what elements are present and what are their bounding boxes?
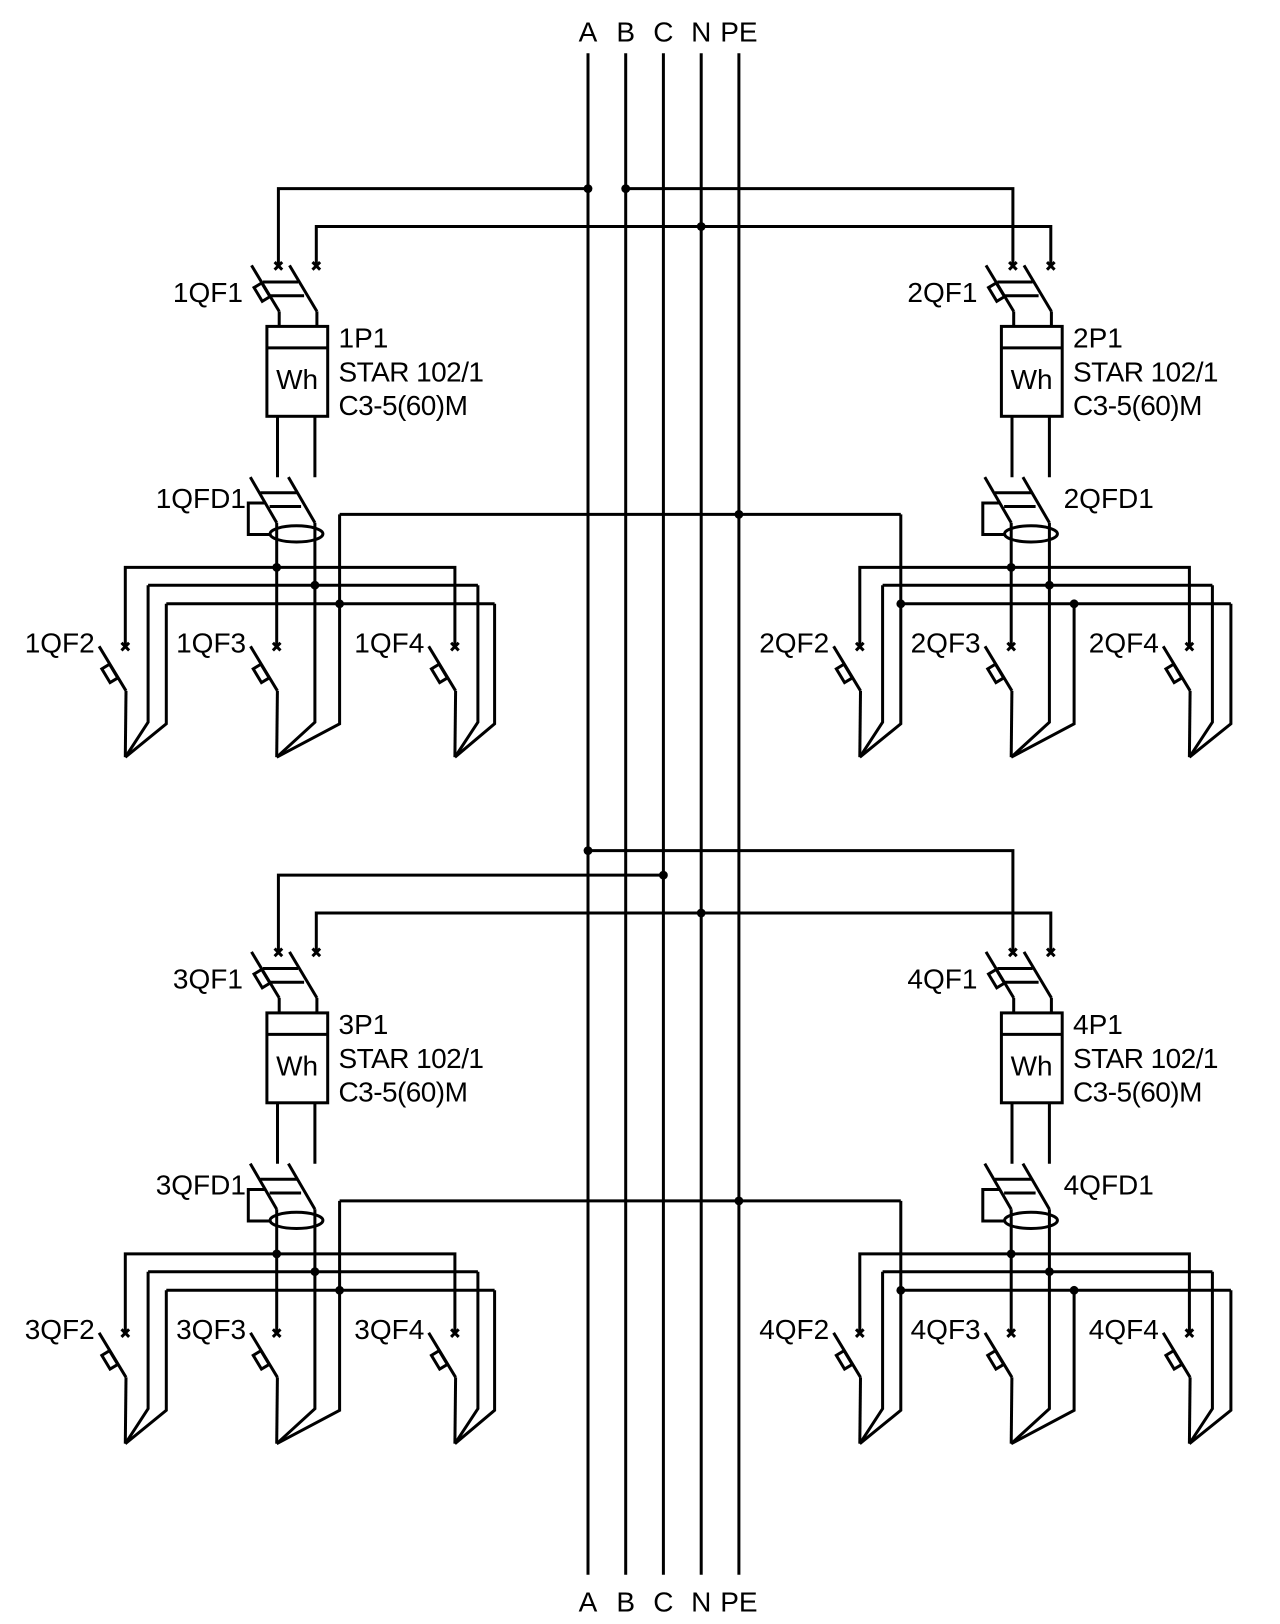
svg-text:2P1: 2P1 (1073, 322, 1123, 353)
circuit breaker 2QF4 (1163, 643, 1193, 691)
N bus to 1QF2 and 1QF4 (125, 585, 478, 757)
svg-text:N: N (691, 1586, 711, 1617)
circuit breaker 1QF1 (2-pole) (252, 262, 321, 311)
junction node on bus N (upper) (697, 222, 706, 231)
svg-text:N: N (691, 17, 711, 48)
wire 2QF2 outgoing feeder (858, 691, 862, 757)
svg-text:2QF3: 2QF3 (911, 627, 981, 658)
N bus to 2QF2 and 2QF4 (860, 585, 1213, 757)
RCD 2QFD1 (residual current device) (983, 477, 1058, 542)
wire 4QFD1 left pole to 4QF3 (1010, 1209, 1013, 1333)
wire meter 2P1 to RCD 2QFD1 (1012, 416, 1049, 477)
svg-text:3QFD1: 3QFD1 (156, 1170, 246, 1201)
wire 2QF4 outgoing feeder (1188, 691, 1192, 757)
circuit breaker 4QF2 (834, 1329, 864, 1377)
svg-text:C3-5(60)M: C3-5(60)M (339, 1077, 468, 1108)
circuit breaker 2QF1 (2-pole) (986, 262, 1055, 311)
wire 3QF3 outgoing feeder (275, 1377, 279, 1443)
circuit breaker 4QF4 (1163, 1329, 1193, 1377)
wire 2QFD1 right pole (N) to 2QF3 (1011, 523, 1049, 757)
bus B (vertical line) (624, 53, 627, 1575)
svg-text:1QF2: 1QF2 (25, 627, 95, 658)
svg-text:1QF1: 1QF1 (173, 277, 243, 308)
junction node phase bus 4 (1007, 1250, 1016, 1259)
circuit breaker 2QF2 (834, 643, 864, 691)
junction node N bus 4 (1045, 1267, 1054, 1276)
bus PE (vertical line) (737, 53, 740, 1575)
svg-text:3QF2: 3QF2 (25, 1314, 95, 1345)
wire meter 1P1 to RCD 1QFD1 (278, 416, 315, 477)
svg-text:STAR 102/1: STAR 102/1 (339, 356, 484, 387)
wire 4QF1 to meter 4P1 (1014, 998, 1052, 1013)
svg-text:C: C (653, 1586, 673, 1617)
svg-text:4QF4: 4QF4 (1089, 1314, 1159, 1345)
PE riser to 2QF2 (860, 514, 901, 757)
N bus to 4QF2 and 4QF4 (860, 1272, 1213, 1444)
svg-text:1QF3: 1QF3 (176, 627, 246, 658)
wire N tap to 1QF1 and 2QF1 right poles (316, 227, 1051, 266)
circuit breaker 4QF1 (2-pole) (986, 949, 1055, 998)
circuit breaker 1QF4 (429, 643, 459, 691)
circuit breaker 3QF1 (2-pole) (252, 949, 321, 998)
circuit breaker 3QF4 (429, 1329, 459, 1377)
svg-text:1QF4: 1QF4 (354, 627, 424, 658)
wire 1QF2 outgoing feeder (124, 691, 128, 757)
svg-text:PE: PE (720, 1586, 757, 1617)
wire 1QFD1 right pole (N) to 1QF3 (277, 523, 315, 757)
svg-text:C3-5(60)M: C3-5(60)M (1073, 1077, 1202, 1108)
svg-text:3P1: 3P1 (339, 1009, 389, 1040)
wire PE distribution (upper) (340, 513, 901, 516)
svg-text:STAR 102/1: STAR 102/1 (1073, 356, 1218, 387)
circuit breaker 2QF3 (985, 643, 1015, 691)
circuit breaker 4QF3 (985, 1329, 1015, 1377)
circuit breaker 3QF2 (99, 1329, 129, 1377)
svg-text:2QFD1: 2QFD1 (1064, 483, 1154, 514)
junction node on bus PE (upper) (735, 510, 744, 519)
svg-text:4QF3: 4QF3 (911, 1314, 981, 1345)
wire phase A tap to 4QF1 left pole (588, 851, 1013, 953)
svg-text:3QF4: 3QF4 (354, 1314, 424, 1345)
wire meter 3P1 to RCD 3QFD1 (278, 1103, 315, 1164)
svg-text:Wh: Wh (1011, 364, 1053, 395)
wire 4QF4 outgoing feeder (1188, 1377, 1192, 1443)
svg-text:2QF1: 2QF1 (907, 277, 977, 308)
junction node on bus B (upper) (621, 184, 630, 193)
bus C (vertical line) (662, 53, 665, 1575)
svg-text:STAR 102/1: STAR 102/1 (339, 1043, 484, 1074)
svg-text:A: A (579, 17, 598, 48)
svg-text:2QF2: 2QF2 (759, 627, 829, 658)
circuit breaker 1QF2 (99, 643, 129, 691)
wire 3QF2 outgoing feeder (124, 1377, 128, 1443)
junction node PE bus 2 (QF3 drop) (1070, 599, 1079, 608)
wire 3QF1 to meter 3P1 (279, 998, 317, 1013)
N bus to 3QF2 and 3QF4 (125, 1272, 478, 1444)
svg-text:C3-5(60)M: C3-5(60)M (339, 390, 468, 421)
svg-text:3QF3: 3QF3 (176, 1314, 246, 1345)
wire 3QFD1 right pole (N) to 3QF3 (277, 1209, 315, 1443)
svg-text:Wh: Wh (276, 1051, 318, 1082)
wire phase A tap to 1QF1 left pole (278, 189, 588, 266)
junction node on bus C (lower) (659, 871, 668, 880)
circuit breaker 1QF3 (251, 643, 281, 691)
junction node PE bus 4 (QF3 drop) (1070, 1286, 1079, 1295)
wire N tap to 3QF1 and 4QF1 right poles (316, 913, 1051, 952)
wire 2QF3 outgoing feeder (1010, 691, 1014, 757)
PE riser to 1QF3 (277, 514, 340, 757)
svg-text:2QF4: 2QF4 (1089, 627, 1159, 658)
PE riser to 3QF3 (277, 1201, 340, 1444)
wire 1QF3 outgoing feeder (275, 691, 279, 757)
wire phase C tap to 3QF1 left pole (278, 875, 663, 952)
svg-text:C3-5(60)M: C3-5(60)M (1073, 390, 1202, 421)
bus A (vertical line) (587, 53, 590, 1575)
junction node PE bus 2 (riser) (896, 599, 905, 608)
junction node on bus PE (lower) (735, 1197, 744, 1206)
svg-text:A: A (579, 1586, 598, 1617)
svg-text:PE: PE (720, 17, 757, 48)
wire 1QF1 to meter 1P1 (279, 311, 317, 326)
PE bus to 4QF3 and 4QF4 (901, 1290, 1231, 1443)
junction node N bus 3 (311, 1267, 320, 1276)
wire meter 4P1 to RCD 4QFD1 (1012, 1103, 1049, 1164)
wire phase B tap to 2QF1 left pole (626, 189, 1013, 266)
energy meter 2P1 box (1001, 326, 1062, 416)
svg-text:4QF2: 4QF2 (759, 1314, 829, 1345)
svg-text:4QF1: 4QF1 (907, 963, 977, 994)
junction node phase bus 3 (272, 1250, 281, 1259)
RCD 4QFD1 (residual current device) (983, 1164, 1058, 1229)
svg-text:1P1: 1P1 (339, 322, 389, 353)
svg-text:B: B (616, 17, 635, 48)
RCD 1QFD1 (residual current device) (248, 477, 323, 542)
wire 2QFD1 left pole to 2QF3 (1010, 523, 1013, 647)
wire 3QFD1 left pole to 3QF3 (275, 1209, 278, 1333)
svg-text:4QFD1: 4QFD1 (1064, 1170, 1154, 1201)
junction node PE bus 4 (riser) (896, 1286, 905, 1295)
svg-text:Wh: Wh (276, 364, 318, 395)
wire 1QF4 outgoing feeder (453, 691, 457, 757)
RCD 3QFD1 (residual current device) (248, 1164, 323, 1229)
PE bus to 2QF3 and 2QF4 (901, 604, 1231, 757)
junction node phase bus 2 (1007, 563, 1016, 572)
phase bus to 4QF2 and 4QF4 (860, 1254, 1190, 1333)
phase bus to 3QF2 and 3QF4 (125, 1254, 455, 1333)
junction node phase bus 1 (272, 563, 281, 572)
PE riser to 4QF2 (860, 1201, 901, 1444)
phase bus to 2QF2 and 2QF4 (860, 567, 1190, 646)
phase bus to 1QF2 and 1QF4 (125, 567, 455, 646)
svg-text:3QF1: 3QF1 (173, 963, 243, 994)
junction node PE bus 1 (335, 599, 344, 608)
svg-text:B: B (616, 1586, 635, 1617)
PE bus to 1QF2 and 1QF4 (125, 604, 494, 757)
svg-text:STAR 102/1: STAR 102/1 (1073, 1043, 1218, 1074)
junction node on bus N (lower) (697, 909, 706, 918)
wire 4QF2 outgoing feeder (858, 1377, 862, 1443)
junction node N bus 1 (311, 581, 320, 590)
junction node on bus A (lower) (584, 846, 593, 855)
bus N (vertical line) (700, 53, 703, 1575)
wire 4QF3 outgoing feeder (1010, 1377, 1014, 1443)
energy meter 4P1 box (1001, 1013, 1062, 1103)
wire 2QF1 to meter 2P1 (1014, 311, 1052, 326)
wire PE distribution (lower) (340, 1199, 901, 1202)
PE bus to 3QF2 and 3QF4 (125, 1290, 494, 1443)
svg-text:C: C (653, 17, 673, 48)
energy meter 3P1 box (267, 1013, 328, 1103)
junction node N bus 2 (1045, 581, 1054, 590)
wire 4QFD1 right pole (N) to 4QF3 (1011, 1209, 1049, 1443)
wire 3QF4 outgoing feeder (453, 1377, 457, 1443)
svg-text:1QFD1: 1QFD1 (156, 483, 246, 514)
svg-text:Wh: Wh (1011, 1051, 1053, 1082)
svg-text:4P1: 4P1 (1073, 1009, 1123, 1040)
junction node on bus A (upper) (584, 184, 593, 193)
junction node PE bus 3 (335, 1286, 344, 1295)
circuit breaker 3QF3 (251, 1329, 281, 1377)
wire 1QFD1 left pole to 1QF3 (275, 523, 278, 647)
energy meter 1P1 box (267, 326, 328, 416)
